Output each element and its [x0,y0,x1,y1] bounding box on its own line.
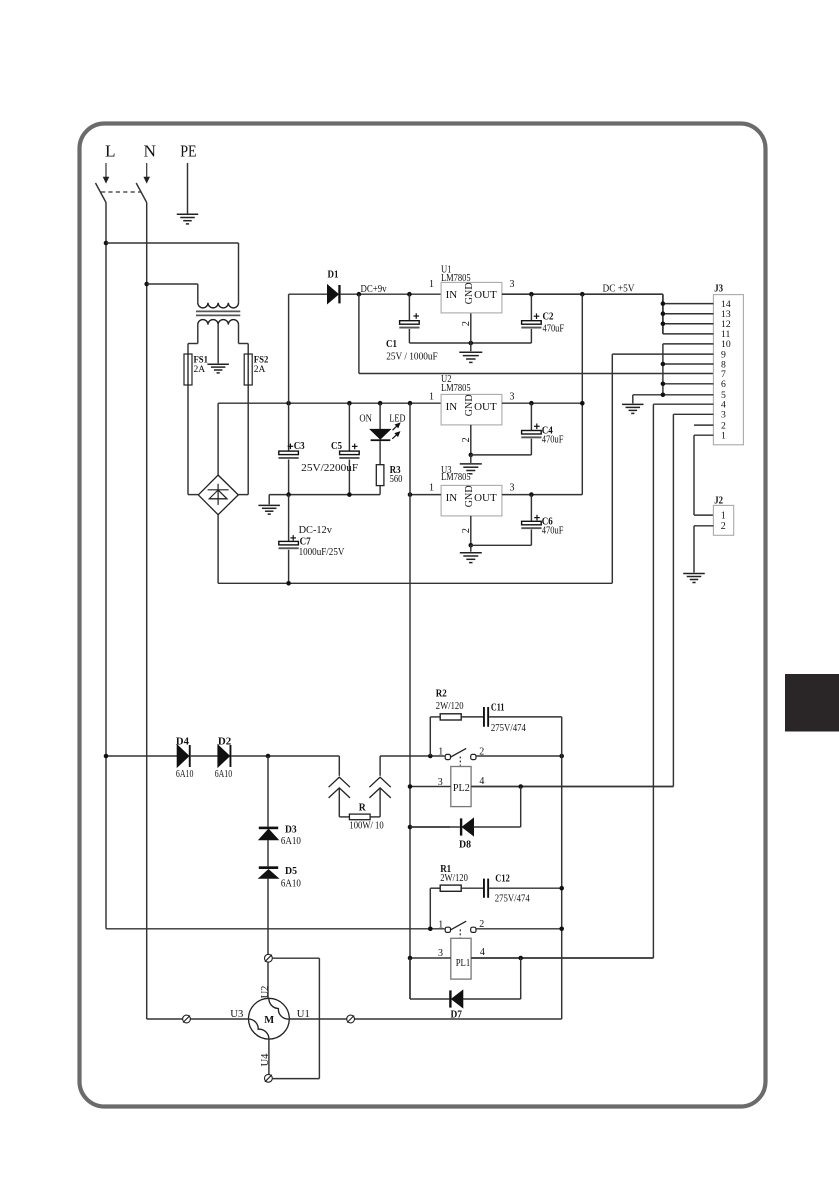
svg-text:C11: C11 [491,701,505,713]
svg-text:1: 1 [429,483,434,494]
svg-text:N: N [144,142,157,161]
svg-text:D5: D5 [285,865,297,877]
svg-text:2W/120: 2W/120 [440,873,468,884]
svg-text:2A: 2A [254,365,266,375]
svg-text:1: 1 [438,920,443,931]
svg-text:2: 2 [461,321,472,326]
svg-text:LM7805: LM7805 [441,272,471,284]
svg-text:C5: C5 [331,440,342,452]
svg-text:ON: ON [359,413,372,425]
svg-text:1: 1 [429,392,434,403]
svg-text:4: 4 [480,947,485,958]
svg-text:U3: U3 [230,1009,243,1020]
svg-text:275V/474: 275V/474 [491,723,527,734]
svg-text:GND: GND [463,394,475,416]
svg-text:3: 3 [438,777,443,788]
svg-text:1000uF/25V: 1000uF/25V [299,546,345,558]
svg-text:OUT: OUT [474,289,497,301]
svg-text:D4: D4 [176,736,189,748]
svg-text:3: 3 [510,279,515,290]
svg-text:100W/ 10: 100W/ 10 [349,821,383,832]
svg-text:FS1: FS1 [194,356,209,366]
svg-text:2A: 2A [194,365,206,375]
svg-text:DC-12v: DC-12v [299,524,333,536]
svg-text:1: 1 [429,279,434,290]
svg-text:U1: U1 [297,1009,310,1020]
svg-text:25V / 1000uF: 25V / 1000uF [386,350,438,362]
svg-text:J3: J3 [714,283,723,294]
svg-text:U2: U2 [260,986,271,999]
svg-text:R2: R2 [436,687,447,699]
svg-text:3: 3 [510,483,515,494]
svg-text:470uF: 470uF [542,434,564,446]
svg-text:2: 2 [721,521,726,532]
svg-text:6A10: 6A10 [215,769,233,780]
svg-text:GND: GND [463,282,475,304]
svg-text:C12: C12 [495,872,510,884]
svg-text:D3: D3 [285,824,297,836]
svg-text:DC+9v: DC+9v [361,283,387,295]
svg-text:D8: D8 [459,838,471,850]
svg-text:IN: IN [446,289,458,301]
svg-text:C3: C3 [294,440,305,452]
svg-text:1: 1 [721,511,726,522]
svg-text:IN: IN [446,492,458,504]
svg-text:3: 3 [438,948,443,959]
svg-text:4: 4 [479,776,484,787]
svg-text:L: L [105,142,116,161]
svg-text:470uF: 470uF [542,525,564,537]
svg-text:LM7805: LM7805 [441,471,471,483]
svg-text:LED: LED [389,412,405,424]
svg-text:1: 1 [721,431,726,442]
svg-text:PL1: PL1 [456,958,471,969]
svg-text:GND: GND [463,485,475,507]
svg-text:3: 3 [721,410,726,421]
svg-text:6A10: 6A10 [281,836,301,847]
svg-text:C1: C1 [386,338,397,350]
svg-text:C2: C2 [543,311,554,323]
svg-text:6A10: 6A10 [176,769,194,780]
svg-text:6: 6 [721,379,726,390]
svg-text:D2: D2 [218,736,232,748]
svg-text:3: 3 [510,392,515,403]
svg-text:DC +5V: DC +5V [603,283,635,295]
svg-text:1: 1 [438,747,443,758]
svg-text:OUT: OUT [474,492,497,504]
svg-text:560: 560 [390,473,403,485]
svg-text:IN: IN [446,401,458,413]
svg-text:PE: PE [180,142,196,161]
svg-text:PL2: PL2 [453,783,470,794]
svg-text:FS2: FS2 [254,356,269,366]
svg-text:25V/2200uF: 25V/2200uF [301,462,358,474]
svg-text:6A10: 6A10 [281,878,301,889]
svg-text:D1: D1 [328,269,339,281]
svg-text:2W/120: 2W/120 [436,701,464,712]
svg-text:275V/474: 275V/474 [495,894,531,905]
svg-text:OUT: OUT [474,401,497,413]
svg-text:J2: J2 [714,495,723,506]
svg-text:R: R [359,802,367,814]
svg-text:470uF: 470uF [543,323,565,335]
svg-text:M: M [264,1015,274,1026]
svg-text:LM7805: LM7805 [441,382,471,394]
